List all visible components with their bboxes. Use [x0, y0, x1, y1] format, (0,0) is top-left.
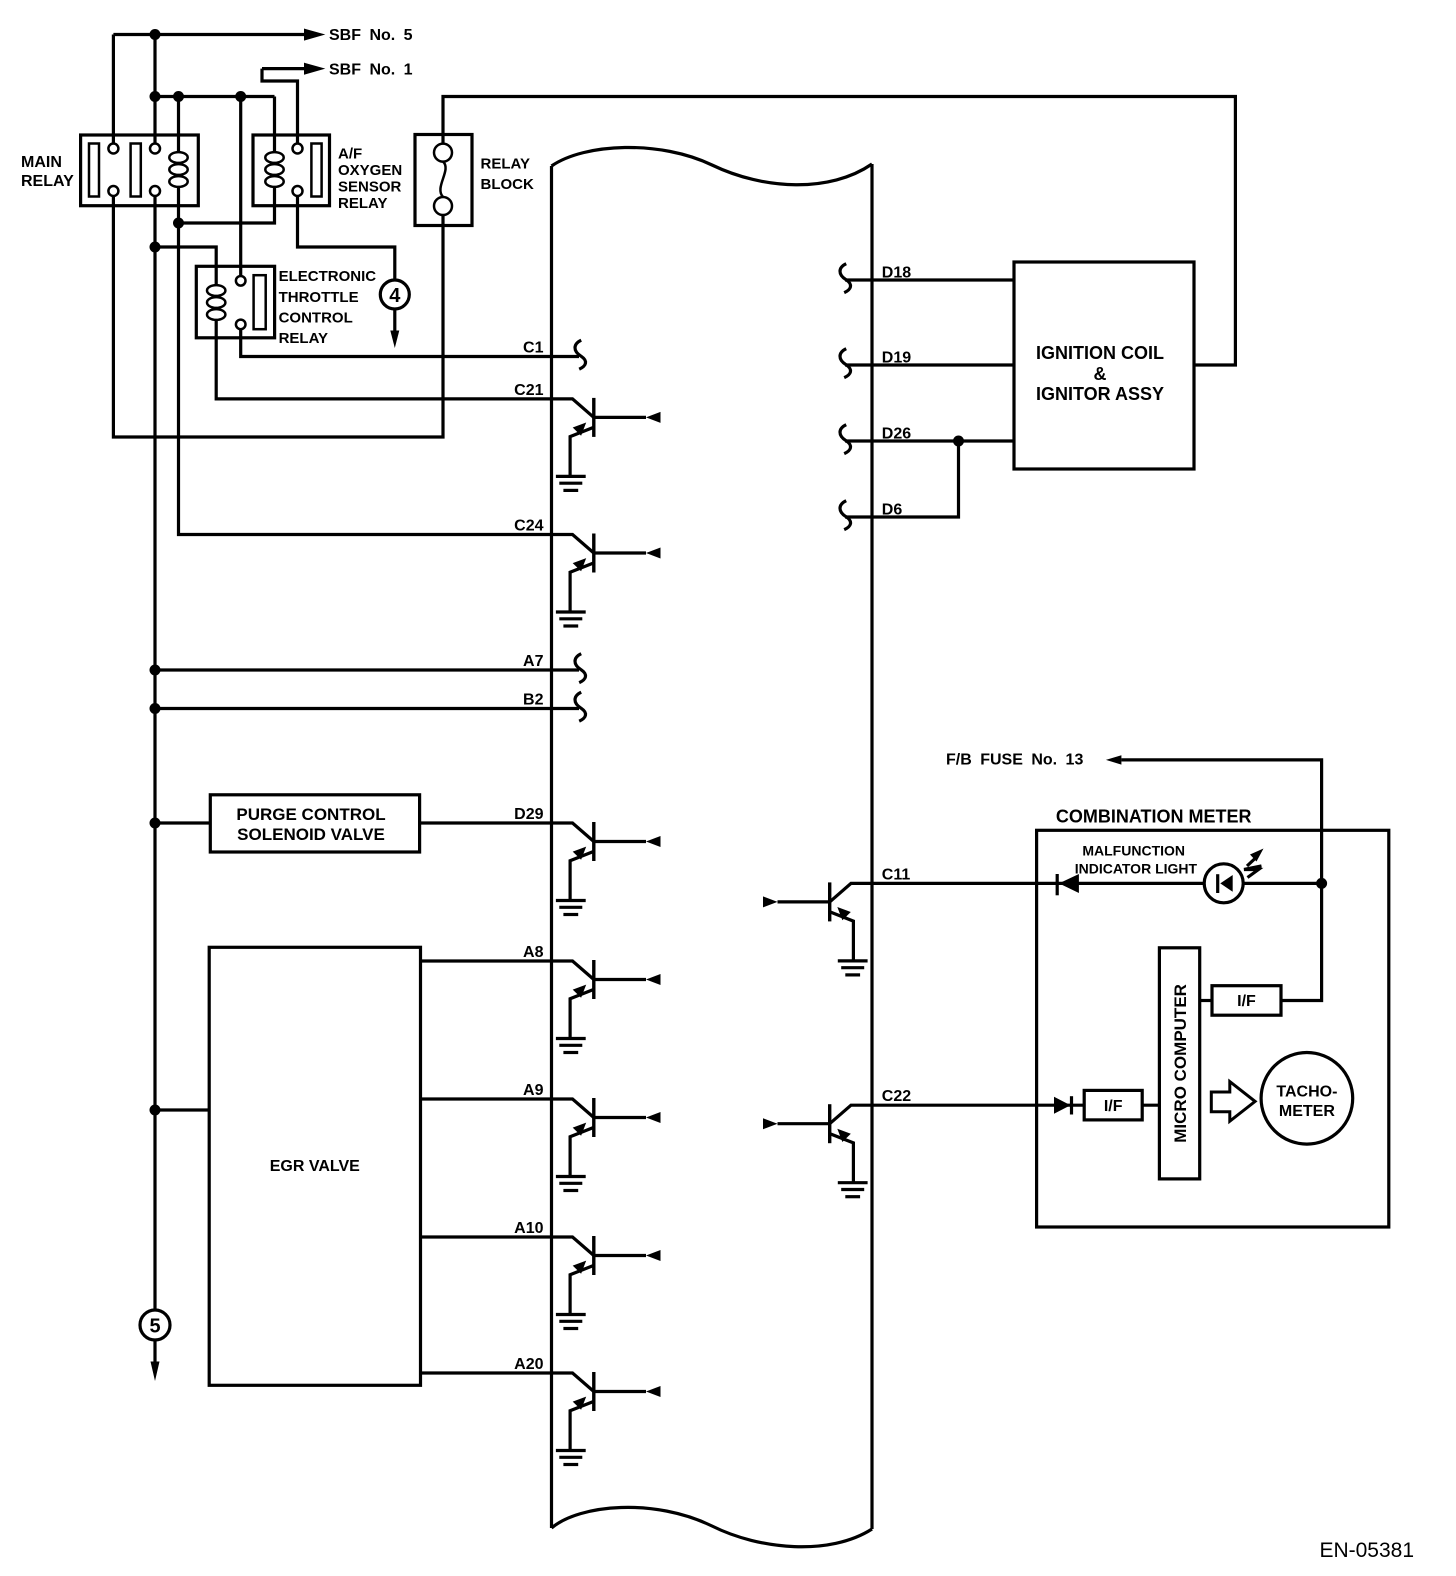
svg-text:RELAY: RELAY [481, 155, 530, 172]
ETC relay contact bar [254, 275, 266, 329]
transistor C24 [552, 534, 661, 627]
arrow below circled 5 [153, 1340, 156, 1362]
wire from F/B fuse arrow down to MIL junction and I/F [1121, 760, 1321, 1001]
svg-text:C22: C22 [882, 1088, 911, 1105]
wire: long trunk x=155 below main relay [153, 196, 156, 1310]
A/F oxygen sensor relay box [253, 135, 330, 206]
node trunk / EGR valve [150, 1105, 161, 1116]
svg-text:SENSOR: SENSOR [338, 179, 402, 196]
node row junction at trunk [150, 91, 161, 102]
transistor C22 (mirrored) [763, 1104, 872, 1197]
transistor A8 [552, 960, 661, 1053]
break squiggle D6 [840, 501, 851, 530]
svg-text:IGNITOR ASSY: IGNITOR ASSY [1036, 384, 1164, 404]
wire: drop x=240.7 to ETC relay pin [239, 97, 242, 277]
svg-text:INDICATOR LIGHT: INDICATOR LIGHT [1075, 861, 1198, 877]
transistor C21 [552, 398, 661, 491]
break squiggle C1 [575, 340, 586, 369]
svg-text:IGNITION COIL: IGNITION COIL [1036, 343, 1164, 363]
A/F relay pin circles [293, 144, 303, 197]
EGR valve box [209, 947, 420, 1385]
svg-text:RELAY: RELAY [338, 195, 387, 212]
svg-text:MALFUNCTION: MALFUNCTION [1082, 843, 1185, 859]
wire A9 [421, 1097, 552, 1100]
relay block top pin circle [434, 144, 452, 162]
transistor C11 (mirrored) [763, 882, 872, 975]
node trunk / B2 [150, 703, 161, 714]
wire: A/F relay coil lead x=274.5 down to y=223 branch to trunk2 [179, 97, 275, 224]
wire C22 to micro computer [872, 1104, 1159, 1107]
svg-text:D19: D19 [882, 350, 911, 367]
svg-text:COMBINATION METER: COMBINATION METER [1056, 807, 1252, 827]
svg-text:METER: METER [1279, 1103, 1335, 1120]
svg-text:TACHO-: TACHO- [1276, 1084, 1337, 1101]
svg-text:&: & [1094, 364, 1107, 384]
A/F relay coil [265, 152, 283, 187]
svg-text:BLOCK: BLOCK [481, 176, 534, 193]
svg-text:A7: A7 [523, 653, 544, 670]
wire trunk to purge valve [155, 821, 210, 824]
circled 5 connector [140, 1310, 170, 1340]
svg-text:C24: C24 [514, 518, 543, 535]
wire trunk to EGR valve [155, 1108, 209, 1111]
circled 4 connector [380, 280, 409, 309]
I/F box 2 [1084, 1090, 1142, 1120]
transistor D29 [552, 822, 661, 915]
svg-text:THROTTLE: THROTTLE [279, 289, 359, 306]
svg-text:RELAY: RELAY [279, 330, 328, 347]
wire micro computer to I/F 1 [1200, 999, 1212, 1002]
svg-text:5: 5 [149, 1316, 160, 1338]
micro computer box [1159, 948, 1199, 1179]
malfunction indicator light LED [1204, 864, 1243, 903]
ECM band top torn-edge wave [552, 147, 873, 184]
tachometer circle [1261, 1053, 1353, 1145]
wire: relay block top pin up and across to ignition coil drop [443, 97, 1235, 366]
ETC relay pin circles [236, 276, 246, 329]
svg-text:D18: D18 [882, 265, 911, 282]
ignition coil & ignitor assy box [1014, 262, 1194, 469]
ETC relay coil [207, 285, 225, 320]
svg-text:D29: D29 [514, 806, 543, 823]
combination meter box [1037, 830, 1389, 1227]
transistor A9 [552, 1098, 661, 1191]
arrow to SBF No.5 [305, 29, 324, 40]
break squiggle A7 [575, 654, 586, 683]
svg-text:ELECTRONIC: ELECTRONIC [279, 268, 377, 285]
wire C11 to MIL junction [872, 882, 1322, 885]
wire: main relay pin1 bottom to relay block bottom pin via y=437 [113, 196, 443, 437]
diode on C11 line [1056, 874, 1059, 895]
wire A7 [155, 668, 579, 671]
wire D18 [845, 278, 1014, 281]
svg-text:4: 4 [389, 285, 401, 307]
diode on C22 line [1054, 1097, 1071, 1114]
node trunk / ETC coil branch [150, 242, 161, 253]
svg-text:D26: D26 [882, 426, 911, 443]
svg-text:SBF No. 1: SBF No. 1 [329, 61, 413, 78]
relay block fuse squiggle [440, 162, 445, 197]
node coil lead / A-F coil branch [173, 218, 184, 229]
svg-text:A8: A8 [523, 944, 544, 961]
svg-text:A20: A20 [514, 1356, 543, 1373]
svg-text:A10: A10 [514, 1220, 543, 1237]
svg-text:CONTROL: CONTROL [279, 309, 353, 326]
node SBF5 junction [150, 29, 161, 40]
node MIL / F-B fuse line [1316, 878, 1327, 889]
node trunk / purge valve [150, 818, 161, 829]
node row junction at ETC drop [235, 91, 246, 102]
I/F box 1 [1212, 986, 1281, 1016]
svg-text:EGR VALVE: EGR VALVE [270, 1158, 360, 1175]
svg-text:B2: B2 [523, 692, 544, 709]
svg-text:C11: C11 [882, 866, 911, 883]
wire B2 [155, 707, 579, 710]
wire: vertical drop x=113 to main relay pin 1 [112, 35, 115, 144]
svg-text:I/F: I/F [1237, 993, 1256, 1010]
wire D19 [845, 363, 1014, 366]
transistor A20 [552, 1372, 661, 1465]
svg-text:I/F: I/F [1104, 1098, 1123, 1115]
wire: SBF No.5 feed line [113, 33, 304, 36]
node trunk / A7 [150, 665, 161, 676]
main relay contact bar 2 [131, 144, 141, 197]
break squiggle D19 [840, 349, 851, 378]
ECM band left edge [550, 166, 553, 1528]
LED flash arrow [1250, 849, 1264, 862]
A/F relay contact bar [311, 144, 321, 197]
transistor A10 [552, 1236, 661, 1329]
break squiggle D26 [840, 425, 851, 454]
main relay box [81, 135, 199, 206]
main relay coil [169, 152, 187, 187]
node D26 / D6 [953, 436, 964, 447]
purge control solenoid valve box [210, 795, 419, 852]
svg-text:A9: A9 [523, 1082, 544, 1099]
svg-text:OXYGEN: OXYGEN [338, 162, 402, 179]
arrow to SBF No.1 [305, 63, 324, 74]
ECM band right edge [870, 164, 873, 1529]
wire: distribution row y=96.5 [155, 95, 275, 98]
main relay contact bar 1 [89, 144, 99, 197]
relay block bottom pin circle [434, 197, 452, 215]
wire: branch y=247 from trunk to ETC relay coil, down to C21 [155, 247, 552, 399]
ECM band bottom torn-edge wave [552, 1507, 873, 1546]
svg-text:EN-05381: EN-05381 [1319, 1539, 1414, 1562]
wire D6 joining D26 [845, 441, 959, 517]
svg-text:MAIN: MAIN [21, 154, 62, 171]
node row junction at coil lead [173, 91, 184, 102]
wire: vertical trunk x=155 from SBF junction to main relay pin 2 [153, 35, 156, 144]
wire: A/F relay pin bottom to circled 4 [298, 196, 395, 280]
svg-text:D6: D6 [882, 502, 903, 519]
wire A8 [421, 959, 552, 962]
ETC relay box [196, 266, 274, 338]
wire: SBF No.1 feed line [262, 69, 305, 144]
arrow to F/B fuse [1106, 755, 1122, 764]
svg-text:C21: C21 [514, 382, 543, 399]
break squiggle B2 [575, 692, 586, 721]
wire: main relay coil lead / trunk x=178.5 down to C24 turn [179, 97, 552, 535]
arrow below circled 4 [393, 309, 396, 331]
svg-text:A/F: A/F [338, 146, 362, 163]
block arrow to tachometer [1211, 1082, 1255, 1122]
main relay pin circles [108, 144, 160, 197]
svg-text:MICRO COMPUTER: MICRO COMPUTER [1171, 984, 1190, 1143]
svg-text:SBF No. 5: SBF No. 5 [329, 27, 413, 44]
relay block box [415, 135, 472, 226]
svg-text:F/B FUSE No. 13: F/B FUSE No. 13 [946, 752, 1083, 769]
break squiggle D18 [840, 264, 851, 293]
wire D26 [845, 439, 1014, 442]
wire D29 [420, 821, 552, 824]
svg-text:SOLENOID VALVE: SOLENOID VALVE [237, 825, 385, 844]
svg-text:RELAY: RELAY [21, 173, 74, 190]
wire A20 [421, 1371, 552, 1374]
wire A10 [421, 1235, 552, 1238]
wire: ETC relay bottom pin to C1 [241, 329, 579, 356]
svg-text:C1: C1 [523, 340, 544, 357]
svg-text:PURGE CONTROL: PURGE CONTROL [236, 805, 385, 824]
